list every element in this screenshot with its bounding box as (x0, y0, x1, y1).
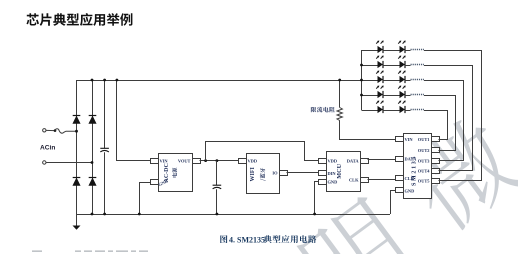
caption 图4 SM2135 典型应用电路 (220, 235, 227, 243)
IC U3 MCU box (327, 152, 361, 192)
wire LED row 1 (362, 50, 378, 52)
wire (383, 95, 399, 97)
node C1 top (103, 79, 106, 82)
wire dashed continuation row 1 (411, 49, 425, 51)
LED D2a (376, 56, 384, 69)
node VOUT branch (204, 159, 207, 162)
wire row 4 to OUT pin (424, 96, 456, 151)
wire LED row 4 (362, 95, 378, 97)
LED D4a (376, 86, 384, 99)
node junction AC2/col2 (91, 161, 94, 164)
svg-text:OUT4: OUT4 (418, 169, 431, 174)
LED D3a (376, 71, 384, 84)
diode D4 bridge bottom-right (89, 178, 97, 186)
svg-text:MCU: MCU (336, 163, 343, 178)
wire LED row 5 (362, 110, 378, 112)
wire R1 top (339, 80, 341, 108)
capacitor C2 (216, 161, 218, 186)
node bus row3 (360, 79, 363, 82)
svg-text:4. SM2135: 4. SM2135 (229, 235, 265, 244)
wire terminal to fuse (46, 129, 55, 131)
svg-text:OUT3: OUT3 (418, 159, 431, 164)
LED D5b (398, 101, 406, 114)
pin U3 DIN (319, 171, 327, 176)
diode D2 bridge top-right (89, 116, 97, 124)
wire U1 GND to rail (140, 183, 151, 215)
svg-text:VIN: VIN (160, 159, 169, 164)
terminal AC L (43, 129, 46, 132)
ground symbol (73, 214, 81, 230)
IC U2 WIFI box (247, 154, 280, 194)
label U3 MCU (336, 163, 343, 178)
node VIN feed top (116, 79, 119, 82)
pin U4 OUT5 (432, 179, 440, 184)
wire row 3 to OUT pin (424, 81, 464, 161)
pin U1 GND (151, 180, 159, 185)
IC U4 SM2135 box (404, 134, 432, 199)
pin U3 DATA (361, 159, 369, 164)
wire bridge column 1 (76, 80, 78, 214)
capacitor C1 (104, 80, 106, 148)
svg-text:VIN: VIN (405, 137, 414, 142)
node bus row2 (360, 64, 363, 67)
wire ground rail (77, 214, 391, 216)
node rail x=104.6 (103, 213, 106, 216)
wire dashed continuation row 2 (411, 64, 425, 66)
wire U4 GND to rail (391, 191, 396, 215)
pin U4 GND (396, 188, 404, 193)
pin U1 VIN (151, 159, 159, 164)
node rail x=314.6 (313, 213, 316, 216)
wire row 2 to OUT pin (424, 66, 473, 171)
node C2 top (216, 159, 219, 162)
node col2 top (91, 79, 94, 82)
svg-text:WIFI: WIFI (250, 167, 256, 182)
node rail x=92 (91, 213, 94, 216)
fuse F1 (55, 129, 77, 133)
LED D2b (398, 56, 406, 69)
wire top rail y=80 (77, 80, 362, 82)
svg-text:SM2135: SM2135 (412, 155, 418, 186)
title 芯片典型应用举例 (26, 13, 132, 26)
pin U2 VDD (239, 159, 247, 164)
wire (405, 80, 410, 82)
resistor R1 zigzag (337, 108, 342, 121)
wire bridge column 2 (92, 80, 94, 214)
svg-text:DATA: DATA (347, 159, 360, 164)
pin U4 OUT1 (432, 137, 440, 142)
node rail x=139.3 (138, 213, 141, 216)
LED D1a (376, 41, 384, 54)
terminal AC N (43, 161, 46, 164)
node R1 top (338, 79, 341, 82)
wire VOUT bypass to MCU VDD (206, 142, 319, 161)
pin U4 OUT4 (432, 169, 440, 174)
wire (405, 65, 410, 67)
pin U4 DATA (396, 157, 404, 162)
wire R1 to SM2135 VIN (340, 121, 396, 140)
wire row 5 to OUT pin (424, 111, 448, 140)
wire AC N to bridge col2 (46, 162, 92, 164)
svg-text:OUT2: OUT2 (418, 148, 430, 153)
pin U4 CLK (396, 176, 404, 181)
LED D1b (398, 41, 406, 54)
diode D1 bridge top-left (73, 116, 81, 124)
wire dashed continuation row 3 (411, 79, 425, 81)
label U2 WIFI/蓝牙 (250, 167, 256, 182)
wire dashed continuation row 4 (411, 94, 425, 96)
wire row 1 to OUT pin (424, 51, 482, 181)
svg-text:AC-DC: AC-DC (164, 163, 170, 182)
node fuse lead (54, 129, 57, 132)
label U4 SM2135 (412, 155, 418, 186)
wire CLK (368, 179, 396, 181)
svg-text:OUT5: OUT5 (418, 179, 431, 184)
wire (405, 50, 410, 52)
svg-text:VOUT: VOUT (178, 159, 191, 164)
svg-text:GND: GND (405, 188, 415, 193)
pin U2 IO (280, 171, 288, 176)
label U1 AC-DC 电源 (164, 163, 170, 182)
svg-text:IO: IO (272, 170, 278, 175)
wire (383, 50, 399, 52)
wire LED anode bus (361, 50, 363, 110)
wire (383, 110, 399, 112)
LED D4b (398, 86, 406, 99)
LED D3b (398, 71, 406, 84)
svg-text:GND: GND (328, 180, 338, 185)
op IC U1 AC-DC box (159, 154, 193, 192)
wire VIN feed (117, 80, 151, 161)
node rail x=216.9 (216, 213, 219, 216)
wire dashed continuation row 5 (411, 109, 425, 111)
wire (383, 65, 399, 67)
svg-text:VDD: VDD (248, 159, 258, 164)
wire (405, 95, 410, 97)
wire U3 GND to rail (315, 182, 319, 215)
wire U2 IO to MCU DIN (287, 172, 319, 174)
pin U3 GND (319, 180, 327, 185)
svg-text:OUT1: OUT1 (418, 137, 430, 142)
node junction AC1/col1 (75, 130, 78, 133)
pin U3 VDD (319, 159, 327, 164)
wire VOUT net (200, 160, 239, 162)
wire DATA (368, 159, 396, 161)
pin U4 OUT3 (432, 159, 440, 164)
wire LED row 2 (362, 65, 378, 67)
wire (405, 110, 410, 112)
node bus row4 (360, 94, 363, 97)
svg-text:ACin: ACin (40, 144, 55, 151)
pin U4 VIN (396, 137, 404, 142)
LED D5a (376, 101, 384, 114)
diode D3 bridge bottom-left (73, 178, 81, 186)
label R1 限流电阻 (311, 107, 335, 113)
pin U1 VOUT (193, 159, 201, 164)
svg-text:CLK: CLK (349, 178, 359, 183)
wire (383, 80, 399, 82)
svg-text:VDD: VDD (328, 159, 338, 164)
wire LED row 3 (362, 80, 378, 82)
pin U4 OUT2 (432, 148, 440, 153)
pin U3 CLK (361, 178, 369, 183)
